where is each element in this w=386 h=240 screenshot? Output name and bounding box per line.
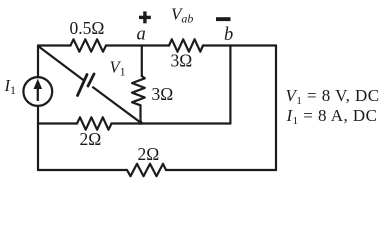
wire vertical resistor tail (139, 105, 141, 122)
label plus sign (139, 16, 151, 19)
svg-text:V1: V1 (110, 58, 126, 79)
svg-text:2Ω: 2Ω (80, 129, 102, 149)
wire middle branch left (38, 122, 77, 124)
current source I1 circle (23, 77, 52, 106)
current source I1 arrow head (34, 79, 43, 89)
wire middle branch right (112, 122, 231, 124)
wire diagonal upper (to battery) (38, 46, 84, 81)
resistor 3ohm horizontal zigzag (169, 39, 203, 51)
resistor 0.5ohm zigzag (71, 39, 107, 51)
wire node b to top-right corner (230, 44, 276, 46)
svg-text:V1 = 8 V, DC: V1 = 8 V, DC (286, 86, 380, 107)
svg-text:3Ω: 3Ω (171, 51, 193, 71)
svg-text:I1: I1 (4, 76, 17, 97)
wire bottom-right segment (166, 169, 276, 171)
label minus sign (216, 17, 231, 21)
wire node b vertical (229, 46, 231, 124)
svg-text:a: a (137, 25, 146, 45)
svg-text:Vab: Vab (171, 5, 193, 26)
wire node a to 3ohm resistor (142, 44, 169, 46)
wire node a vertical (141, 46, 143, 77)
battery V1 short plate (88, 74, 94, 86)
junction dot (139, 121, 143, 125)
resistor 2ohm middle zigzag (77, 117, 112, 129)
svg-text:2Ω: 2Ω (138, 144, 160, 164)
svg-text:b: b (224, 25, 233, 45)
wire right edge (275, 46, 277, 171)
resistor 3ohm vertical zigzag (132, 76, 145, 105)
wire top-left segment (38, 44, 71, 46)
resistor 2ohm bottom zigzag (127, 164, 166, 176)
battery V1 long plate (78, 75, 88, 96)
wire diagonal lower (battery to junction) (93, 87, 141, 122)
wire bottom-left segment (38, 169, 127, 171)
wire left edge upper (37, 46, 39, 78)
wire left edge lower (37, 106, 39, 170)
svg-text:0.5Ω: 0.5Ω (70, 18, 105, 38)
svg-text:I1 = 8 A, DC: I1 = 8 A, DC (286, 106, 378, 127)
wire 3ohm to node b (203, 44, 230, 46)
current source I1 arrow stem (37, 85, 39, 101)
svg-text:3Ω: 3Ω (152, 84, 174, 104)
wire resistor to node a (106, 44, 142, 46)
